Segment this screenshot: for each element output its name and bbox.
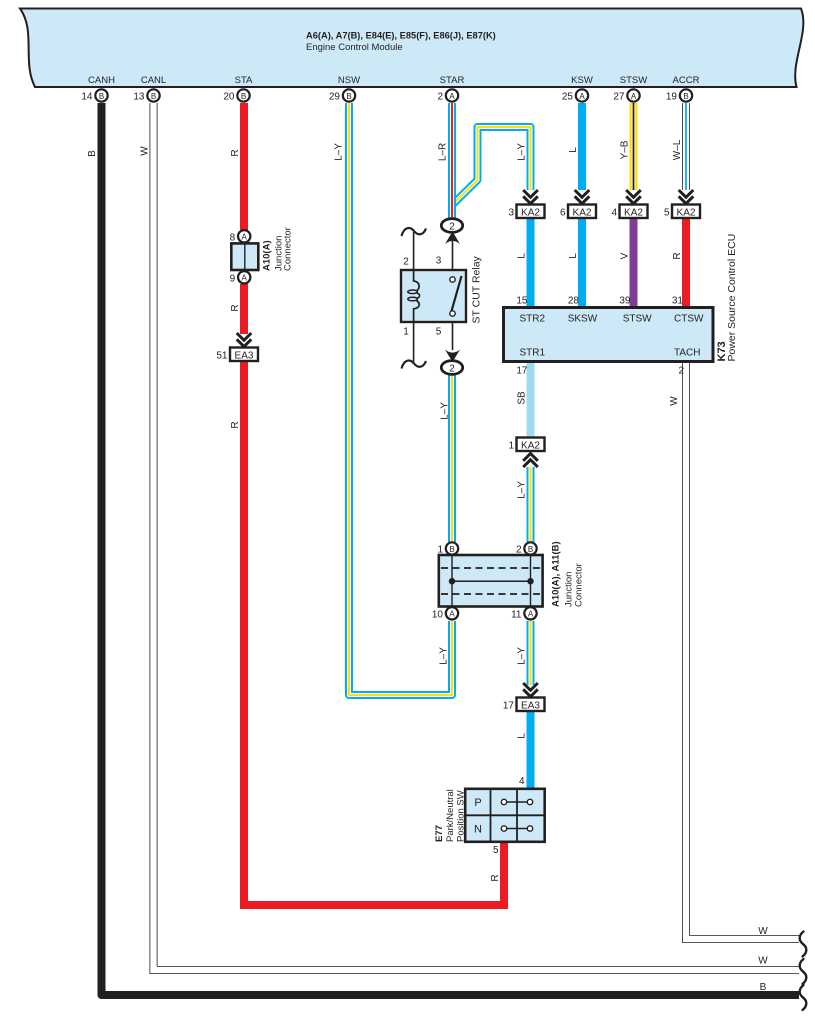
svg-text:L–Y: L–Y [517,143,528,161]
svg-text:KSW: KSW [571,75,593,86]
svg-text:STAR: STAR [440,75,465,86]
svg-text:R: R [230,304,241,311]
svg-text:2: 2 [516,545,522,556]
svg-text:11: 11 [511,609,522,620]
svg-text:Connector: Connector [574,563,585,607]
svg-text:V: V [620,252,631,259]
svg-text:L–Y: L–Y [334,143,345,161]
svg-text:TACH: TACH [674,348,700,359]
svg-text:2: 2 [449,364,455,375]
svg-text:B: B [151,92,156,101]
svg-text:8: 8 [230,232,236,243]
svg-text:A: A [242,274,248,283]
svg-text:CTSW: CTSW [674,314,704,325]
svg-text:W–L: W–L [672,139,683,160]
svg-text:KA2: KA2 [573,208,592,219]
svg-text:L–Y: L–Y [439,647,450,665]
svg-text:A10(A), A11(B): A10(A), A11(B) [551,541,562,607]
svg-text:STSW: STSW [623,314,652,325]
svg-text:51: 51 [216,351,228,362]
svg-text:Engine Control Module: Engine Control Module [306,42,403,53]
svg-text:STSW: STSW [620,75,647,86]
svg-text:25: 25 [562,92,574,103]
svg-text:N: N [474,824,482,836]
svg-text:R: R [230,149,241,156]
svg-text:A10(A): A10(A) [262,240,273,271]
svg-text:NSW: NSW [338,75,360,86]
svg-text:2: 2 [449,222,455,233]
svg-text:A: A [242,233,248,242]
svg-text:STR2: STR2 [520,314,546,325]
svg-text:L: L [517,733,528,739]
svg-text:27: 27 [613,92,625,103]
svg-text:B: B [760,982,767,993]
svg-text:B: B [87,150,98,157]
svg-text:ACCR: ACCR [673,75,700,86]
svg-text:R: R [672,252,683,259]
svg-text:A: A [449,92,455,101]
svg-text:B: B [683,92,688,101]
svg-text:13: 13 [133,92,145,103]
svg-text:3: 3 [436,256,442,267]
svg-text:Connector: Connector [283,227,294,271]
svg-text:B: B [449,545,454,554]
svg-text:KA2: KA2 [521,441,540,452]
svg-text:B: B [346,92,351,101]
svg-text:1: 1 [437,545,443,556]
svg-text:2: 2 [678,366,684,377]
svg-text:W: W [140,146,151,156]
svg-text:W: W [758,956,768,967]
svg-text:A: A [579,92,585,101]
svg-text:SB: SB [517,391,528,405]
svg-text:STA: STA [235,75,253,86]
svg-text:CANL: CANL [141,75,166,86]
svg-text:L: L [568,253,579,259]
svg-text:17: 17 [516,366,528,377]
svg-text:3: 3 [508,208,514,219]
svg-text:29: 29 [329,92,341,103]
svg-text:R: R [490,874,501,881]
svg-text:A: A [449,610,455,619]
svg-text:KA2: KA2 [677,208,696,219]
svg-text:28: 28 [568,296,580,307]
svg-text:KA2: KA2 [521,208,540,219]
svg-text:6: 6 [560,208,566,219]
svg-text:19: 19 [666,92,678,103]
svg-text:L–R: L–R [438,143,449,161]
svg-text:L–Y: L–Y [517,647,528,665]
svg-text:5: 5 [493,845,499,856]
svg-text:E77: E77 [434,825,445,842]
svg-text:31: 31 [672,296,684,307]
svg-text:B: B [99,92,104,101]
svg-text:P: P [474,797,481,809]
svg-text:L–Y: L–Y [440,402,451,420]
svg-text:14: 14 [81,92,93,103]
svg-text:SKSW: SKSW [568,314,598,325]
svg-text:L–Y: L–Y [517,481,528,499]
svg-text:W: W [669,396,680,406]
svg-text:B: B [528,545,533,554]
svg-text:1: 1 [508,441,514,452]
svg-text:B: B [241,92,246,101]
svg-text:A: A [631,92,637,101]
svg-text:A: A [528,610,534,619]
svg-text:39: 39 [619,296,631,307]
svg-text:10: 10 [432,609,444,620]
svg-text:STR1: STR1 [520,348,546,359]
svg-text:A6(A), A7(B), E84(E), E85(F),: A6(A), A7(B), E84(E), E85(F), E86(J), E8… [306,31,496,41]
svg-text:KA2: KA2 [624,208,643,219]
svg-text:2: 2 [403,257,409,268]
svg-text:R: R [230,421,241,428]
svg-text:5: 5 [436,327,442,338]
svg-text:Park/Neutral: Park/Neutral [445,789,456,842]
svg-text:17: 17 [503,701,515,712]
svg-text:4: 4 [611,208,617,219]
svg-text:ST CUT Relay: ST CUT Relay [471,255,483,323]
svg-text:CANH: CANH [88,75,115,86]
svg-text:EA3: EA3 [235,351,254,362]
svg-text:9: 9 [230,273,236,284]
svg-text:15: 15 [516,296,528,307]
svg-text:Position SW: Position SW [455,790,466,842]
svg-text:1: 1 [403,327,409,338]
svg-text:EA3: EA3 [521,701,540,712]
svg-text:5: 5 [664,208,670,219]
svg-text:4: 4 [519,776,525,787]
svg-text:20: 20 [223,92,235,103]
svg-text:Power Source Control ECU: Power Source Control ECU [726,234,738,362]
svg-text:W: W [758,926,768,937]
svg-text:Y–B: Y–B [620,140,631,159]
svg-text:2: 2 [437,92,443,103]
svg-text:L: L [568,147,579,153]
svg-text:L: L [517,253,528,259]
